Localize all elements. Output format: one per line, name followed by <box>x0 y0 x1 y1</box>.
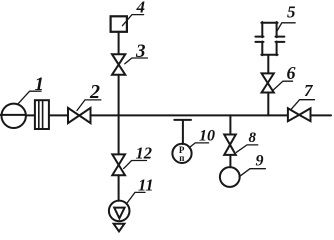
svg-text:5: 5 <box>287 2 296 21</box>
leader line label 4 <box>122 15 143 26</box>
wire: vertical from valve 12 to rotameter 11 <box>118 175 120 201</box>
svg-text:3: 3 <box>135 41 146 62</box>
valve 3 <box>112 54 125 64</box>
wire: main horizontal pipe central segment <box>91 114 288 116</box>
wire: main horizontal pipe left segment <box>0 114 35 117</box>
coupling 5 upper half <box>255 22 284 37</box>
svg-text:12: 12 <box>136 144 153 163</box>
leader line label 6 <box>273 81 293 90</box>
leader line label 2 <box>77 100 101 111</box>
leader line label 7 <box>292 100 315 109</box>
leader line label 9 <box>239 169 265 177</box>
valve 12 <box>112 154 125 165</box>
leader line label 11 <box>127 192 146 203</box>
gauge tap dash for 10 <box>174 119 191 121</box>
valve 7 <box>288 108 299 121</box>
wire: valve 8 to gauge 9 <box>229 155 231 167</box>
leader line label 8 <box>236 145 257 152</box>
svg-text:4: 4 <box>136 0 146 17</box>
valve 8 <box>224 135 236 145</box>
leader line label 10 <box>189 143 208 148</box>
wire: vertical stem to gauge 10 <box>182 121 184 145</box>
wire: vertical from box 4 to valve 3 <box>118 32 120 54</box>
rotameter 11 <box>109 201 130 222</box>
drain arrow below 11 <box>114 224 125 232</box>
wire: vertical from valve 3 across main pipe to valve 12 <box>118 75 120 155</box>
wire: main pipe right end segment <box>311 114 332 116</box>
svg-text:6: 6 <box>287 63 296 83</box>
tank box 4 <box>111 16 127 32</box>
svg-text:10: 10 <box>199 128 215 145</box>
svg-text:9: 9 <box>256 152 264 169</box>
leader line label 1 <box>18 91 41 104</box>
coupling 5 lower half <box>255 42 284 56</box>
leader line label 12 <box>124 161 147 169</box>
pressure gauge 10 <box>172 144 191 163</box>
svg-text:2: 2 <box>89 81 100 103</box>
svg-text:11: 11 <box>138 175 154 194</box>
pump circle 1 <box>2 104 26 128</box>
leader line label 3 <box>125 58 148 64</box>
gauge 9 <box>220 167 240 187</box>
svg-text:8: 8 <box>249 130 257 146</box>
svg-text:1: 1 <box>35 74 45 95</box>
svg-text:п: п <box>179 153 184 163</box>
leader line label 5 <box>277 23 295 31</box>
valve 6 <box>262 73 274 83</box>
valve 2 <box>68 108 79 123</box>
wire: coupling 5 to valve 6 <box>267 55 269 73</box>
wire: valve 6 down to main pipe <box>267 93 269 116</box>
wire: pipe between filter and valve 2 <box>49 114 68 116</box>
filter block (component 1 body) <box>35 100 49 129</box>
wire: vertical from main pipe to valve 8 <box>229 115 231 134</box>
